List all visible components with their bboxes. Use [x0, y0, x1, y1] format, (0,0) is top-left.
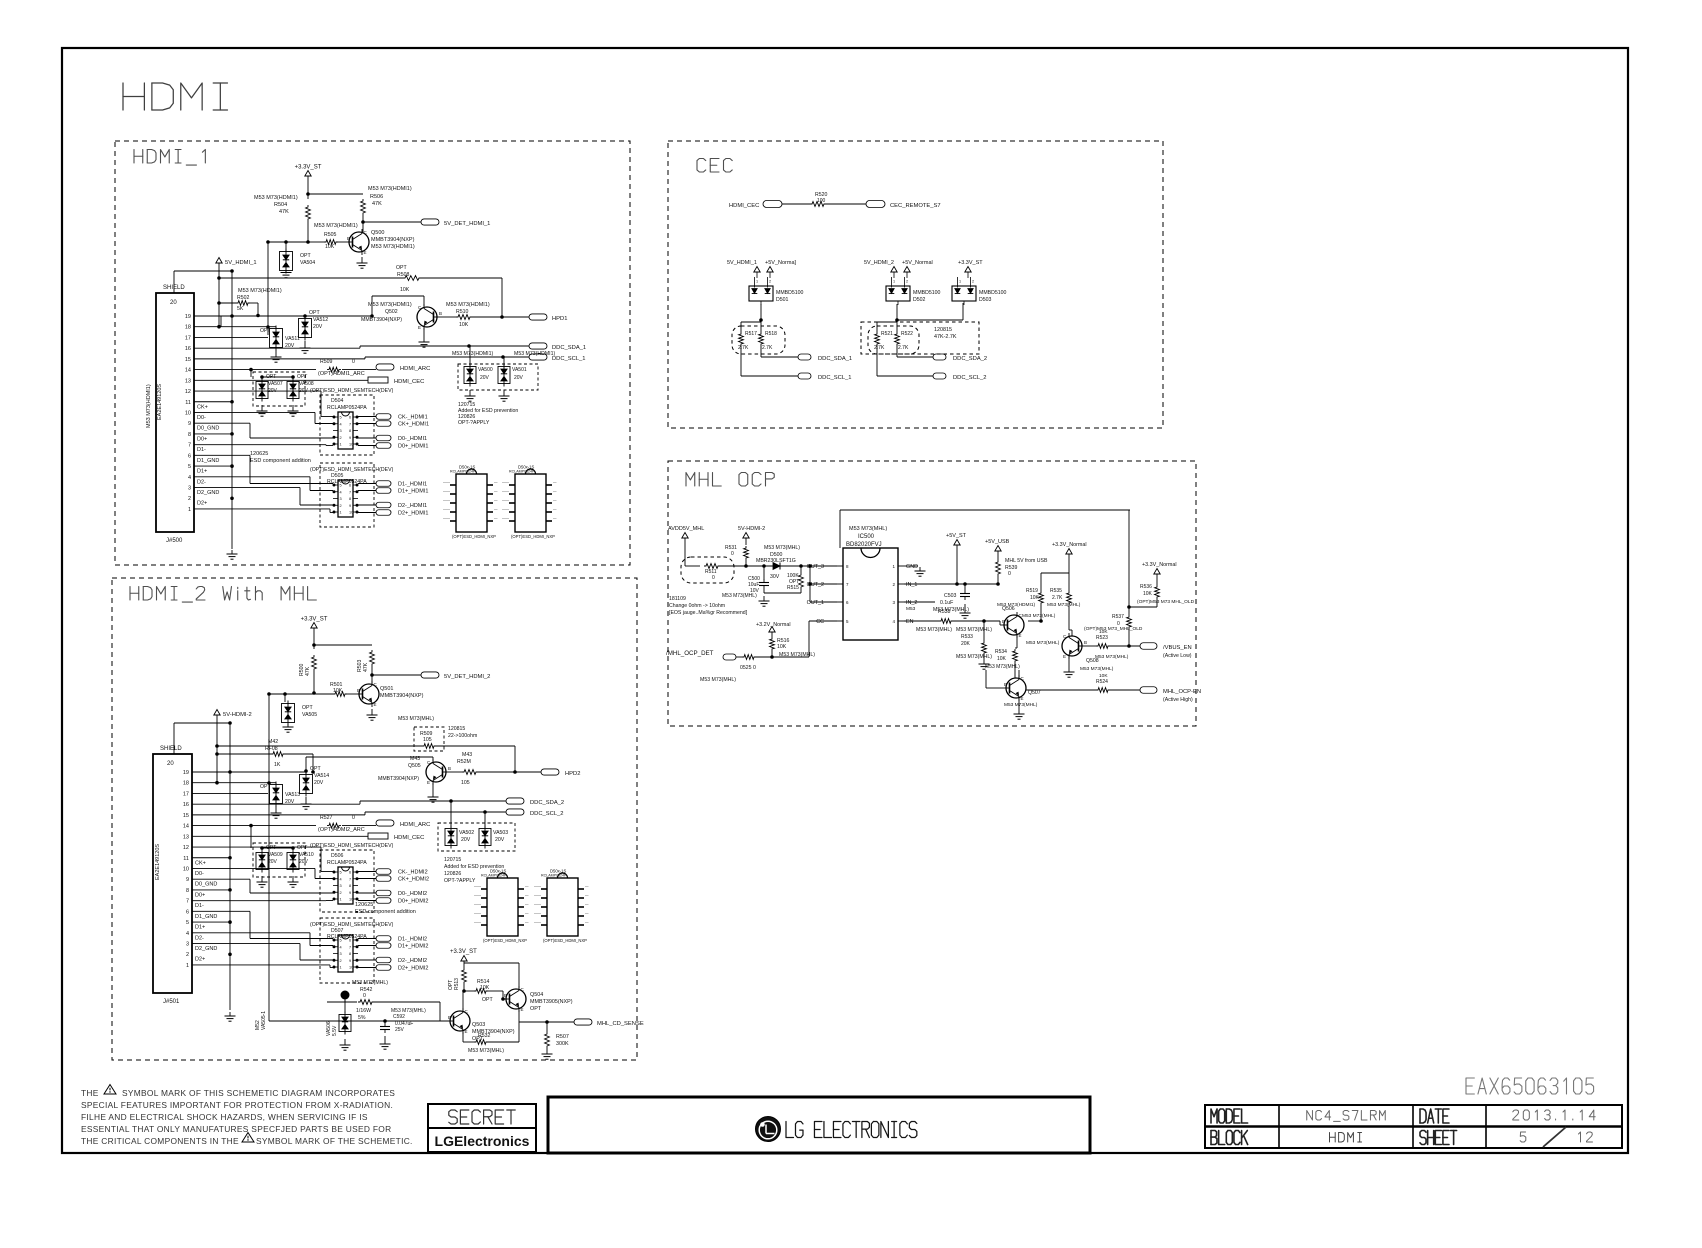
- svg-text:R513: R513: [454, 978, 460, 990]
- svg-text:19: 19: [185, 314, 191, 320]
- svg-text:D2+: D2+: [197, 501, 207, 507]
- svg-text:B: B: [1002, 619, 1005, 624]
- svg-text:MHL_CD_SENSE: MHL_CD_SENSE: [597, 1021, 644, 1027]
- svg-text:22->100ohm: 22->100ohm: [448, 733, 477, 739]
- svg-text:20V: 20V: [314, 780, 324, 786]
- svg-text:DDC_SCL_2: DDC_SCL_2: [530, 811, 564, 817]
- svg-text:10: 10: [183, 866, 189, 872]
- svg-text:16: 16: [183, 802, 189, 808]
- svg-text:——: ——: [502, 490, 510, 494]
- svg-text:D2-_HDMI2: D2-_HDMI2: [398, 958, 427, 964]
- svg-text:CK+_HDMI1: CK+_HDMI1: [398, 422, 429, 428]
- svg-text:17: 17: [183, 791, 189, 797]
- svg-text:1: 1: [188, 507, 191, 513]
- svg-text:M53 M73(MHL): M53 M73(MHL): [352, 980, 388, 986]
- svg-text:10: 10: [349, 511, 353, 515]
- svg-text:D1+_HDMI2: D1+_HDMI2: [398, 944, 428, 950]
- svg-text:CK-_HDMI1: CK-_HDMI1: [398, 415, 428, 421]
- svg-text:RCLAMP0524P: RCLAMP0524P: [541, 874, 567, 878]
- svg-text:D1-_HDMI2: D1-_HDMI2: [398, 937, 427, 943]
- svg-text:3: 3: [340, 952, 342, 956]
- svg-text:Q507: Q507: [1028, 690, 1041, 696]
- svg-text:ESD component addition: ESD component addition: [355, 909, 416, 915]
- svg-text:R508: R508: [397, 272, 410, 278]
- svg-text:THE: THE: [81, 1088, 99, 1098]
- svg-text:47K: 47K: [372, 201, 382, 207]
- svg-text:4: 4: [340, 490, 342, 494]
- svg-text:OUT_1: OUT_1: [807, 600, 824, 606]
- svg-text:—: —: [585, 885, 589, 889]
- svg-text:20V: 20V: [461, 837, 471, 843]
- svg-text:DDC_SCL_1: DDC_SCL_1: [818, 375, 852, 381]
- svg-text:1: 1: [186, 963, 189, 969]
- svg-text:RCLAMP0524PA: RCLAMP0524PA: [327, 860, 367, 866]
- svg-text:IN_1: IN_1: [906, 582, 917, 588]
- svg-text:THE CRITICAL COMPONENTS IN THE: THE CRITICAL COMPONENTS IN THE: [81, 1136, 239, 1146]
- svg-text:RCLAMP0524PA: RCLAMP0524PA: [327, 405, 367, 411]
- svg-text:R535: R535: [1050, 588, 1062, 594]
- svg-text:8: 8: [186, 888, 189, 894]
- svg-text:CK+: CK+: [195, 860, 206, 866]
- svg-text:120625: 120625: [355, 902, 373, 908]
- svg-text:D0+_HDMI2: D0+_HDMI2: [398, 899, 428, 905]
- svg-text:18: 18: [185, 325, 191, 331]
- svg-text:B: B: [357, 688, 360, 693]
- svg-text:5: 5: [188, 464, 191, 470]
- svg-text:R532: R532: [478, 1033, 491, 1039]
- svg-text:2: 2: [340, 436, 342, 440]
- svg-text:——: ——: [443, 508, 451, 512]
- svg-text:SPECIAL FEATURES IMPORTANT FOR: SPECIAL FEATURES IMPORTANT FOR PROTECTIO…: [81, 1100, 393, 1110]
- svg-text:2: 2: [972, 280, 974, 284]
- svg-text:(OPT)ESD_HDMI_NXP: (OPT)ESD_HDMI_NXP: [483, 938, 527, 943]
- svg-text:R52M: R52M: [457, 759, 471, 765]
- svg-text:17: 17: [185, 335, 191, 341]
- svg-text:MMBT3904(NXP): MMBT3904(NXP): [371, 237, 415, 243]
- svg-text:6: 6: [349, 416, 351, 420]
- svg-text:20: 20: [170, 300, 177, 306]
- svg-text:——: ——: [502, 499, 510, 503]
- svg-text:3: 3: [340, 884, 342, 888]
- svg-text:3: 3: [188, 486, 191, 492]
- svg-text:DDC_SCL_2: DDC_SCL_2: [953, 375, 987, 381]
- svg-text:D1+: D1+: [197, 469, 207, 475]
- svg-text:D0_GND: D0_GND: [197, 426, 219, 432]
- svg-text:M53 M73(MHL): M53 M73(MHL): [1026, 640, 1060, 646]
- svg-text:M53 M73(MHL): M53 M73(MHL): [916, 627, 952, 633]
- svg-text:IC500: IC500: [858, 534, 875, 540]
- svg-text:——: ——: [474, 885, 482, 889]
- svg-text:—: —: [553, 508, 557, 512]
- svg-text:VA513: VA513: [285, 792, 300, 798]
- svg-text:M53 M73(MHL): M53 M73(MHL): [1047, 602, 1081, 608]
- svg-text:HDMI_ARC: HDMI_ARC: [400, 366, 430, 372]
- svg-text:M53 M73(MHL): M53 M73(MHL): [779, 652, 815, 658]
- svg-text:E: E: [1063, 654, 1066, 659]
- svg-text:R538: R538: [938, 609, 951, 615]
- svg-text:D1+_HDMI1: D1+_HDMI1: [398, 489, 428, 495]
- svg-text:5V-HDMI-2: 5V-HDMI-2: [223, 712, 252, 718]
- svg-text:R518: R518: [765, 331, 777, 337]
- svg-text:4: 4: [340, 422, 342, 426]
- svg-text:VA505: VA505: [302, 712, 317, 718]
- svg-text:M53 M73(HDMI1): M53 M73(HDMI1): [514, 351, 555, 357]
- svg-text:30V: 30V: [770, 574, 780, 580]
- svg-text:5V_DET_HDMI_2: 5V_DET_HDMI_2: [444, 674, 490, 680]
- svg-text:10K: 10K: [1030, 595, 1040, 601]
- svg-text:0: 0: [363, 993, 366, 999]
- svg-text:+5V_ST: +5V_ST: [946, 533, 967, 539]
- svg-text:VA501: VA501: [512, 367, 527, 373]
- svg-text:5K: 5K: [237, 306, 244, 312]
- svg-text:D0_GND: D0_GND: [195, 882, 217, 888]
- svg-text:5V-HDMI-2: 5V-HDMI-2: [738, 526, 765, 532]
- svg-text:8: 8: [349, 497, 351, 501]
- svg-text:D2-: D2-: [197, 479, 206, 485]
- svg-text:1: 1: [756, 280, 758, 284]
- svg-text:300K: 300K: [556, 1041, 569, 1047]
- svg-text:25V: 25V: [395, 1027, 405, 1033]
- svg-text:15: 15: [183, 813, 189, 819]
- svg-text:E: E: [465, 1029, 468, 1034]
- svg-text:MMBT3905(NXP): MMBT3905(NXP): [530, 999, 573, 1005]
- svg-text:10K: 10K: [459, 322, 469, 328]
- svg-text:ESSENTIAL THAT ONLY MANUFATURE: ESSENTIAL THAT ONLY MANUFATURES SPECFJED…: [81, 1124, 391, 1134]
- svg-text:VA508: VA508: [299, 381, 314, 387]
- svg-text:——: ——: [502, 508, 510, 512]
- svg-text:MMBT3904(NXP): MMBT3904(NXP): [361, 317, 402, 323]
- svg-text:(OPT)ESD_HDMI_NXP: (OPT)ESD_HDMI_NXP: [511, 534, 555, 539]
- svg-text:20V: 20V: [495, 837, 505, 843]
- svg-text:VA509: VA509: [268, 852, 283, 858]
- svg-text:ESD component addition: ESD component addition: [250, 458, 311, 464]
- svg-text:D504: D504: [331, 398, 344, 404]
- svg-text:+3.3V_ST: +3.3V_ST: [450, 949, 477, 955]
- svg-text:M53 M73(HDMI1): M53 M73(HDMI1): [368, 302, 412, 308]
- svg-text:7: 7: [349, 490, 351, 494]
- svg-text:9: 9: [349, 504, 351, 508]
- svg-text:3: 3: [340, 497, 342, 501]
- svg-text:(OPT)ESD_HDMI_NXP: (OPT)ESD_HDMI_NXP: [543, 938, 587, 943]
- svg-text:——: ——: [474, 894, 482, 898]
- svg-text:10K: 10K: [1099, 629, 1108, 635]
- svg-text:—: —: [585, 912, 589, 916]
- svg-text:D2+_HDMI1: D2+_HDMI1: [398, 511, 428, 517]
- svg-text:M53 M73(HDMI1): M53 M73(HDMI1): [371, 244, 415, 250]
- svg-text:M53 M73(MHL): M53 M73(MHL): [722, 593, 757, 599]
- svg-text:R536: R536: [1140, 584, 1152, 590]
- svg-text:VA503: VA503: [493, 830, 508, 836]
- svg-text:D1-: D1-: [195, 903, 204, 909]
- svg-text:10K: 10K: [1143, 591, 1153, 597]
- svg-text:10K: 10K: [777, 644, 787, 650]
- svg-text:Q505: Q505: [408, 763, 421, 769]
- svg-text:D0+: D0+: [195, 892, 205, 898]
- svg-text:12: 12: [185, 389, 191, 395]
- svg-text:AVDD5V_MHL: AVDD5V_MHL: [668, 526, 704, 532]
- svg-text:M53 M73(HDMI1): M53 M73(HDMI1): [254, 195, 298, 201]
- svg-text:4: 4: [340, 877, 342, 881]
- svg-text:VA511: VA511: [285, 336, 300, 342]
- svg-text:—: —: [585, 921, 589, 925]
- svg-text:(OPT)ESD_HDMI_SEMTECH(DEV): (OPT)ESD_HDMI_SEMTECH(DEV): [310, 467, 394, 473]
- svg-text:R517: R517: [745, 331, 757, 337]
- svg-text:1: 1: [340, 443, 342, 447]
- svg-text:DDC_SDA_2: DDC_SDA_2: [953, 356, 987, 362]
- svg-text:—: —: [525, 912, 529, 916]
- svg-text:RCLAMP0524P: RCLAMP0524P: [450, 470, 476, 474]
- svg-text:11: 11: [185, 400, 191, 406]
- svg-text:+3.3V_ST: +3.3V_ST: [958, 260, 983, 266]
- svg-text:1K: 1K: [274, 762, 281, 768]
- svg-text:2.7K: 2.7K: [762, 345, 773, 351]
- svg-text:16: 16: [185, 346, 191, 352]
- svg-text:——: ——: [443, 517, 451, 521]
- svg-text:D0-_HDMI1: D0-_HDMI1: [398, 436, 427, 442]
- svg-text:RCLAMP0524P: RCLAMP0524P: [509, 470, 535, 474]
- svg-text:0.1uF: 0.1uF: [940, 600, 953, 606]
- svg-text:(OPT)ESD_HDMI_NXP: (OPT)ESD_HDMI_NXP: [452, 534, 496, 539]
- svg-text:13: 13: [183, 834, 189, 840]
- svg-text:E: E: [1021, 696, 1024, 701]
- svg-text:——: ——: [534, 894, 542, 898]
- svg-text:20: 20: [167, 761, 174, 767]
- svg-text:8: 8: [349, 952, 351, 956]
- svg-text:+3.3V_Normal: +3.3V_Normal: [1142, 562, 1177, 568]
- svg-text:OPT: OPT: [530, 1006, 542, 1012]
- svg-text:M53 M73(MHL): M53 M73(MHL): [849, 526, 887, 532]
- svg-text:DDC_SDA_1: DDC_SDA_1: [818, 356, 852, 362]
- svg-text:FILHE AND ELECTRICAL SHOCK HAZ: FILHE AND ELECTRICAL SHOCK HAZARDS, WHEN…: [81, 1112, 368, 1122]
- svg-text:——: ——: [443, 490, 451, 494]
- svg-text:5V_HDMI_2: 5V_HDMI_2: [864, 260, 894, 266]
- svg-text:RCLAMP0524P: RCLAMP0524P: [481, 874, 507, 878]
- svg-text:13: 13: [185, 378, 191, 384]
- svg-text:M53 M73(MHL): M53 M73(MHL): [956, 654, 992, 660]
- svg-text:10K: 10K: [480, 985, 490, 991]
- svg-text:M53: M53: [906, 606, 916, 612]
- svg-text:OPT: OPT: [309, 310, 320, 316]
- svg-text:EA2E149120S: EA2E149120S: [157, 384, 163, 420]
- svg-text:12: 12: [183, 845, 189, 851]
- svg-text:1: 1: [893, 280, 895, 284]
- svg-text:B: B: [504, 993, 507, 998]
- svg-text:DDC_SCL_1: DDC_SCL_1: [552, 356, 586, 362]
- svg-text:R504: R504: [274, 202, 287, 208]
- svg-text:5: 5: [340, 871, 342, 875]
- svg-text:M53 M73(MHL): M53 M73(MHL): [1080, 666, 1114, 672]
- svg-text:—: —: [553, 517, 557, 521]
- svg-text:R505: R505: [324, 232, 337, 238]
- svg-text:1: 1: [959, 280, 961, 284]
- svg-text:CK+_HDMI2: CK+_HDMI2: [398, 877, 429, 883]
- svg-text:MHL 5V from USB: MHL 5V from USB: [1005, 558, 1048, 564]
- svg-text:MMBD5100: MMBD5100: [776, 290, 804, 296]
- svg-text:0: 0: [352, 815, 355, 821]
- svg-text:R509: R509: [320, 359, 333, 365]
- svg-text:7: 7: [349, 877, 351, 881]
- svg-text:M53 M73(MHL): M53 M73(MHL): [1004, 702, 1038, 708]
- svg-text:D2+_HDMI2: D2+_HDMI2: [398, 966, 428, 972]
- svg-text:R533: R533: [961, 634, 973, 640]
- svg-text:2: 2: [186, 952, 189, 958]
- svg-text:+5V_Normal: +5V_Normal: [902, 260, 933, 266]
- svg-text:HPD2: HPD2: [565, 771, 580, 777]
- svg-text:10: 10: [349, 898, 353, 902]
- svg-text:E: E: [418, 325, 421, 330]
- svg-text:+3.3V_Normal: +3.3V_Normal: [1052, 542, 1087, 548]
- svg-text:8: 8: [349, 884, 351, 888]
- svg-text:47K: 47K: [279, 209, 289, 215]
- svg-text:6: 6: [349, 871, 351, 875]
- svg-text:D0-_HDMI2: D0-_HDMI2: [398, 891, 427, 897]
- svg-text:—: —: [525, 894, 529, 898]
- svg-text:B: B: [1084, 640, 1087, 645]
- svg-text:Q504: Q504: [530, 992, 543, 998]
- svg-text:B: B: [448, 1015, 451, 1020]
- svg-text:——: ——: [534, 912, 542, 916]
- svg-text:0: 0: [731, 551, 734, 557]
- svg-text:Q501: Q501: [380, 686, 393, 692]
- svg-text:——: ——: [502, 517, 510, 521]
- svg-text:D502: D502: [913, 297, 926, 303]
- svg-text:10: 10: [185, 410, 191, 416]
- svg-text:MHL_OCP-EN: MHL_OCP-EN: [1163, 689, 1201, 695]
- svg-text:120715: 120715: [444, 857, 461, 863]
- svg-text:5%: 5%: [358, 1015, 366, 1021]
- svg-text:R511: R511: [705, 569, 717, 575]
- svg-text:10K: 10K: [333, 688, 343, 694]
- svg-text:/VBUS_EN: /VBUS_EN: [1163, 645, 1192, 651]
- svg-text:20V: 20V: [514, 375, 524, 381]
- svg-text:M53 M73(HDMI1): M53 M73(HDMI1): [238, 288, 282, 294]
- svg-text:—: —: [585, 894, 589, 898]
- svg-text:5: 5: [340, 484, 342, 488]
- svg-text:R523: R523: [1096, 635, 1108, 641]
- svg-text:M53 M73(MHL): M53 M73(MHL): [1022, 613, 1056, 619]
- svg-text:—: —: [585, 903, 589, 907]
- svg-text:6: 6: [349, 484, 351, 488]
- svg-text:(OPT)M53 M73_MHL_OLD: (OPT)M53 M73_MHL_OLD: [1084, 626, 1143, 632]
- svg-text:R510: R510: [456, 309, 469, 315]
- svg-text:20V: 20V: [299, 859, 309, 865]
- svg-text:D1_GND: D1_GND: [195, 914, 217, 920]
- svg-text:HDMI_CEC: HDMI_CEC: [729, 203, 759, 209]
- svg-text:2.7K: 2.7K: [898, 345, 909, 351]
- svg-text:(OPT)ESD_HDMI_SEMTECH(DEV): (OPT)ESD_HDMI_SEMTECH(DEV): [310, 922, 394, 928]
- svg-text:1: 1: [340, 966, 342, 970]
- svg-text:181109: 181109: [669, 596, 686, 602]
- svg-text:——: ——: [534, 903, 542, 907]
- svg-text:D2-_HDMI1: D2-_HDMI1: [398, 503, 427, 509]
- svg-text:(Active High): (Active High): [1163, 697, 1193, 703]
- svg-text:2.7K: 2.7K: [874, 345, 885, 351]
- svg-text:—: —: [553, 481, 557, 485]
- svg-text:+5V_USB: +5V_USB: [985, 539, 1010, 545]
- svg-text:14: 14: [185, 368, 191, 374]
- svg-text:120815: 120815: [448, 726, 465, 732]
- svg-text:2: 2: [340, 504, 342, 508]
- svg-text:B: B: [439, 311, 442, 316]
- svg-text:J#500: J#500: [166, 538, 183, 544]
- svg-text:8: 8: [188, 432, 191, 438]
- svg-text:0: 0: [1008, 571, 1011, 577]
- svg-text:HDMI_ARC: HDMI_ARC: [400, 822, 430, 828]
- svg-text:SHIELD: SHIELD: [163, 285, 185, 291]
- svg-text:9: 9: [186, 877, 189, 883]
- svg-text:(Active Low): (Active Low): [1163, 653, 1192, 659]
- svg-text:47K-2.7K: 47K-2.7K: [934, 334, 957, 340]
- svg-text:20V: 20V: [313, 324, 323, 330]
- svg-text:+3.3V_ST: +3.3V_ST: [301, 617, 328, 623]
- svg-text:R506: R506: [370, 194, 383, 200]
- svg-text:10: 10: [349, 966, 353, 970]
- svg-text:——: ——: [502, 481, 510, 485]
- svg-text:MMBD5100: MMBD5100: [913, 290, 941, 296]
- svg-text:LGElectronics: LGElectronics: [435, 1133, 530, 1149]
- svg-text:5: 5: [340, 939, 342, 943]
- svg-text:2.7K: 2.7K: [738, 345, 749, 351]
- svg-text:E: E: [374, 702, 377, 707]
- svg-text:[EOS jauge..Ma%gr Recommend]: [EOS jauge..Ma%gr Recommend]: [669, 610, 748, 616]
- svg-text:J#501: J#501: [163, 999, 180, 1005]
- svg-text:OPT: OPT: [310, 766, 321, 772]
- svg-text:HDMI_CEC: HDMI_CEC: [394, 379, 424, 385]
- svg-text:—: —: [494, 481, 498, 485]
- svg-text:2: 2: [188, 496, 191, 502]
- svg-text:——: ——: [474, 921, 482, 925]
- svg-text:RF08: RF08: [265, 746, 278, 752]
- svg-text:D0+_HDMI1: D0+_HDMI1: [398, 444, 428, 450]
- svg-text:R537: R537: [1112, 614, 1124, 620]
- svg-text:20K: 20K: [961, 641, 971, 647]
- svg-text:R534: R534: [995, 649, 1007, 655]
- svg-text:105: 105: [461, 780, 470, 786]
- svg-text:Q500: Q500: [371, 230, 384, 236]
- svg-text:VA500: VA500: [478, 367, 493, 373]
- svg-text:(OPT)HDMI2_ARC: (OPT)HDMI2_ARC: [318, 827, 365, 833]
- svg-text:VA505-1: VA505-1: [261, 1011, 267, 1030]
- svg-text:D1+: D1+: [195, 925, 205, 931]
- svg-text:M53 M73(MHL): M53 M73(MHL): [764, 545, 800, 551]
- svg-text:(OPT)ESD_HDMI_SEMTECH(DEV): (OPT)ESD_HDMI_SEMTECH(DEV): [310, 388, 394, 394]
- svg-text:B: B: [347, 236, 350, 241]
- svg-text:10K: 10K: [400, 287, 410, 293]
- svg-text:R524: R524: [1096, 679, 1108, 685]
- svg-text:9: 9: [349, 891, 351, 895]
- svg-text:19: 19: [183, 770, 189, 776]
- svg-text:M43: M43: [462, 752, 472, 758]
- svg-text:VA504: VA504: [300, 260, 315, 266]
- svg-text:10K: 10K: [325, 244, 335, 250]
- svg-text:——: ——: [534, 921, 542, 925]
- svg-text:4: 4: [188, 475, 191, 481]
- svg-text:4: 4: [186, 931, 189, 937]
- svg-text:R539: R539: [1005, 565, 1018, 571]
- svg-text:0: 0: [712, 575, 715, 581]
- svg-text:HDMI_CEC: HDMI_CEC: [394, 835, 424, 841]
- svg-text:5.5V: 5.5V: [332, 1025, 338, 1036]
- svg-text:OPT: OPT: [260, 328, 271, 334]
- svg-text:—: —: [553, 490, 557, 494]
- svg-text:M53 M73(HDMI1): M53 M73(HDMI1): [314, 223, 358, 229]
- svg-text:15: 15: [185, 357, 191, 363]
- svg-text:M53 M73(MHL): M53 M73(MHL): [1095, 654, 1129, 660]
- svg-text:8: 8: [349, 429, 351, 433]
- svg-text:OPT-?APPLY: OPT-?APPLY: [458, 420, 490, 426]
- svg-text:OPT: OPT: [297, 374, 307, 380]
- svg-text:6: 6: [188, 453, 191, 459]
